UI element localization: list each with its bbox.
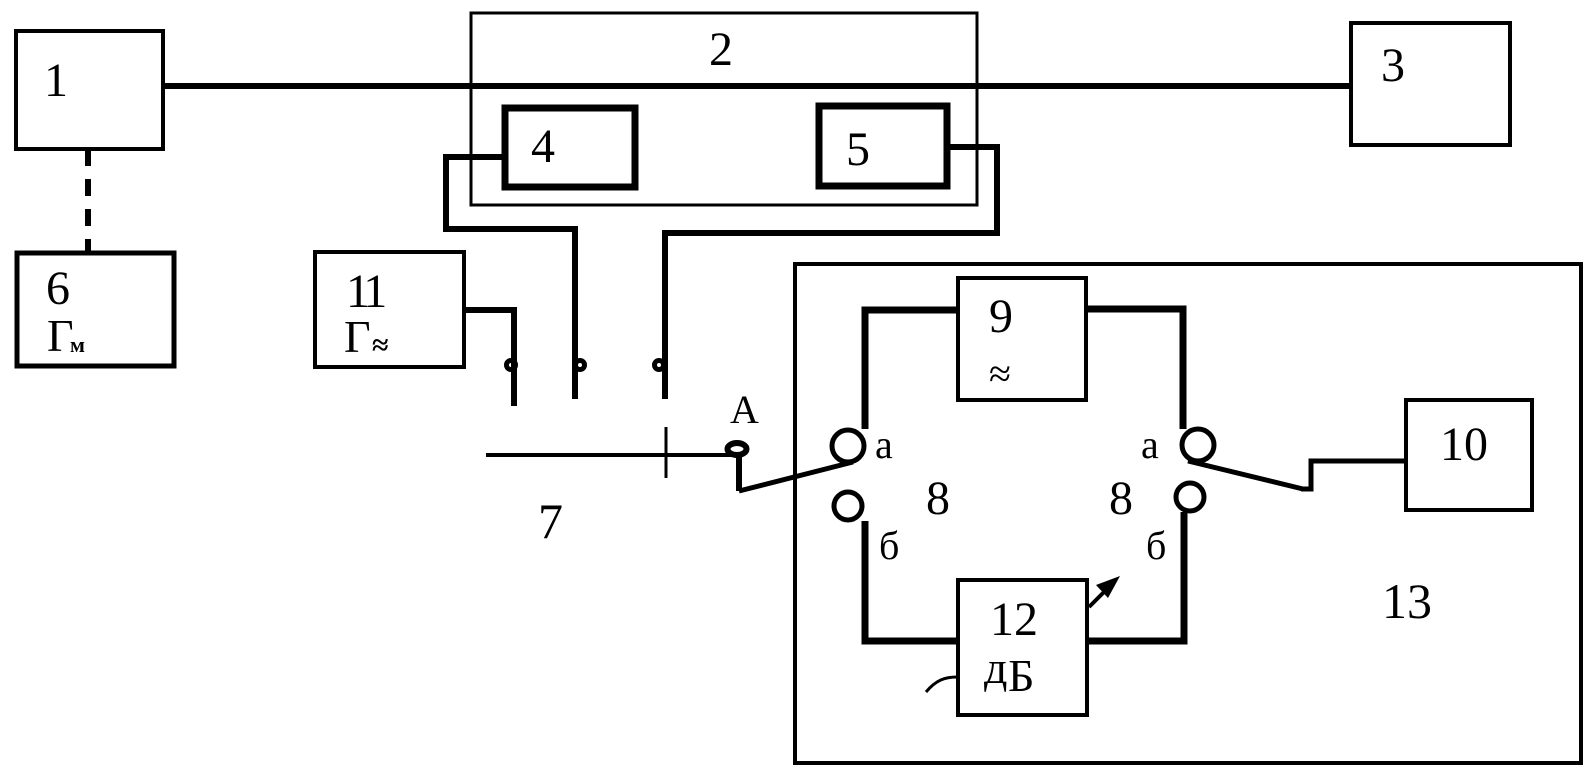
svg-text:8: 8: [1109, 472, 1133, 525]
block 3: [1351, 23, 1510, 145]
svg-text:4: 4: [531, 120, 555, 173]
contact б left: [834, 492, 862, 520]
dashed wire from 1 to 6: [85, 149, 91, 252]
svg-text:7: 7: [538, 493, 563, 549]
wire from lever right to block 10: [1301, 461, 1406, 489]
block 11: [315, 252, 464, 367]
svg-text:6: 6: [46, 262, 70, 315]
probe contact circle on wire from 4: [576, 361, 585, 370]
wire loop right bottom (б to 12): [1087, 512, 1184, 641]
arrow of variable attenuator 12: [1089, 592, 1104, 607]
wire from block 4 down to probe: [446, 157, 575, 399]
block 1: [16, 31, 163, 149]
block 12: [958, 580, 1087, 715]
svg-text:12: 12: [990, 593, 1038, 646]
svg-text:13: 13: [1382, 573, 1432, 629]
crossing tick on line 7: [665, 427, 668, 478]
svg-text:1: 1: [44, 54, 68, 107]
block 2: [471, 13, 977, 205]
svg-text:б: б: [1146, 523, 1166, 568]
arrow tail of variable attenuator 12: [926, 677, 957, 692]
svg-text:5: 5: [846, 123, 870, 176]
svg-text:А: А: [730, 387, 759, 432]
svg-text:Б: Б: [1008, 650, 1034, 701]
wire loop right top (9 to a): [1086, 309, 1183, 429]
block 4: [505, 108, 635, 187]
probe contact circle on wire from 5: [655, 361, 664, 370]
svg-text:≈: ≈: [989, 351, 1011, 396]
wire from block 5 down to probe: [665, 147, 997, 399]
wire from block 11 down to probe: [464, 310, 514, 406]
wire main bus from 1 to 3: [163, 83, 1351, 89]
block 5: [819, 106, 947, 186]
svg-text:м: м: [70, 332, 85, 357]
wire loop left bottom (б to 12): [865, 521, 958, 641]
svg-text:8: 8: [926, 472, 950, 525]
svg-text:а: а: [1141, 422, 1159, 467]
svg-text:2: 2: [709, 23, 733, 76]
svg-text:≈: ≈: [372, 329, 388, 362]
svg-text:Г: Г: [344, 311, 371, 362]
switch lever right: [1188, 461, 1303, 489]
node A pivot: [728, 443, 747, 455]
svg-text:3: 3: [1381, 39, 1405, 92]
block 6: [17, 253, 174, 366]
probe contact circle on wire from 11: [507, 361, 516, 370]
contact б right: [1176, 483, 1204, 511]
svg-text:а: а: [875, 422, 893, 467]
svg-text:д: д: [984, 642, 1007, 693]
svg-text:10: 10: [1440, 418, 1488, 471]
svg-text:9: 9: [989, 290, 1013, 343]
block 9: [958, 278, 1086, 400]
svg-text:б: б: [879, 523, 899, 568]
pivot stem: [736, 455, 742, 491]
block 13: [795, 264, 1581, 763]
line 7 (measuring line): [486, 453, 731, 457]
contact a left: [832, 430, 864, 462]
wire loop left top (a to 9): [865, 310, 958, 429]
block 10: [1406, 400, 1532, 510]
contact a right: [1182, 429, 1214, 461]
switch lever left: [739, 462, 853, 491]
